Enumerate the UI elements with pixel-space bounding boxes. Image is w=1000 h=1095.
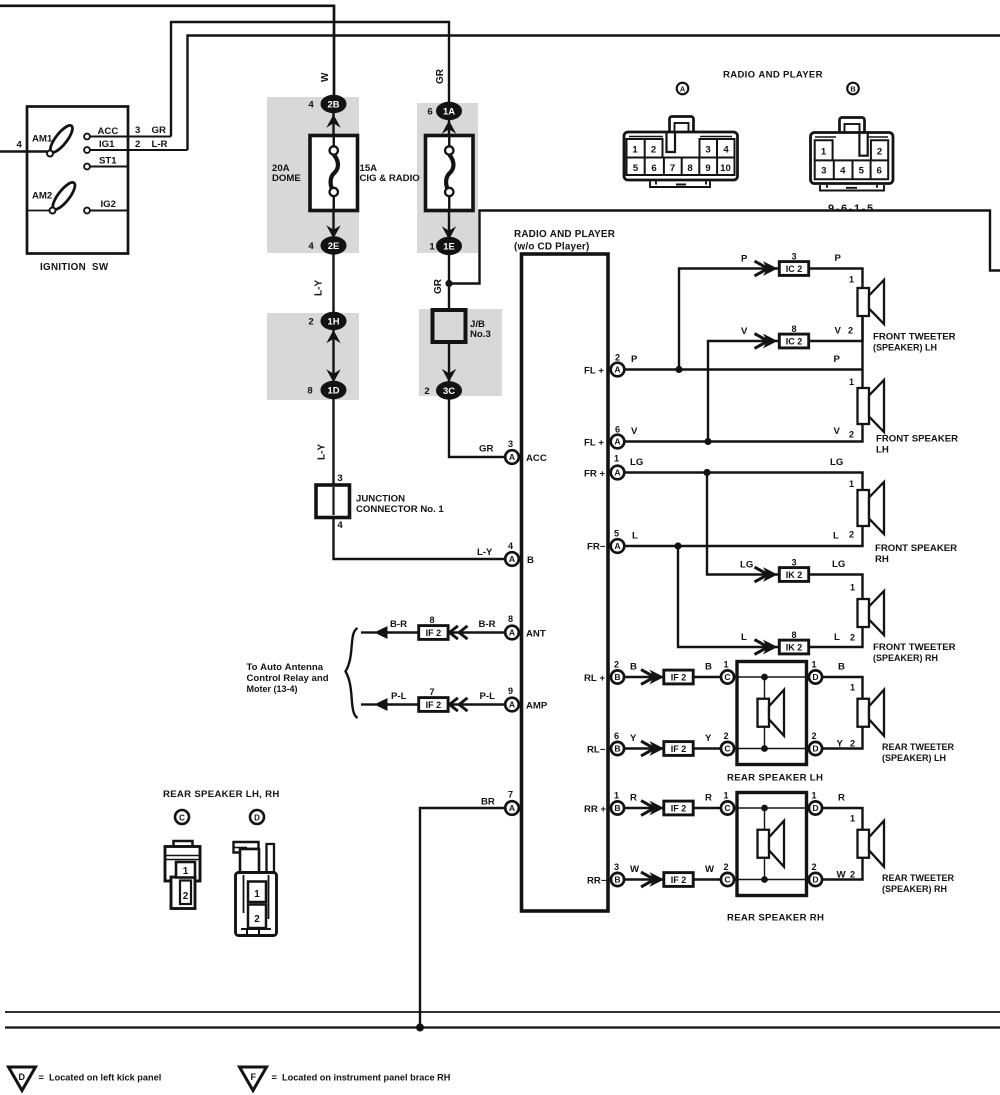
svg-text:9: 9	[508, 686, 513, 696]
svg-text:2: 2	[811, 731, 816, 741]
terminal A4 B	[505, 552, 519, 566]
terminal B3 REAR&#160;SPEAKER&#160;RH - wire	[624, 878, 666, 880]
svg-text:6: 6	[427, 107, 432, 118]
connector B circled letter	[847, 83, 859, 95]
curly brace	[346, 628, 358, 718]
svg-text:8: 8	[687, 163, 693, 174]
ground bus line lower	[5, 1026, 1000, 1028]
svg-text:B-R: B-R	[479, 619, 496, 630]
svg-text:2: 2	[651, 145, 656, 156]
svg-text:RL−: RL−	[587, 745, 606, 756]
svg-text:AM1: AM1	[32, 134, 53, 145]
svg-text:IF 2: IF 2	[671, 803, 687, 813]
svg-text:LH: LH	[876, 445, 889, 456]
svg-text:FRONT SPEAKER: FRONT SPEAKER	[876, 434, 958, 445]
connector C1 REAR&#160;SPEAKER&#160;LH	[721, 670, 734, 683]
svg-text:2: 2	[850, 870, 855, 880]
wire LG branch to IK2	[707, 473, 780, 575]
svg-text:3: 3	[821, 166, 826, 177]
connector B pinout drawing	[811, 118, 894, 191]
wires inside REAR&#160;SPEAKER&#160;LH	[734, 677, 809, 749]
svg-text:2: 2	[850, 739, 855, 749]
svg-text:CIG & RADIO: CIG & RADIO	[360, 173, 421, 184]
svg-text:IF 2: IF 2	[671, 875, 687, 885]
chevron P	[755, 261, 769, 276]
svg-text:Y: Y	[705, 733, 712, 744]
svg-text:IF 2: IF 2	[426, 628, 442, 638]
fuse 15A CIG & RADIO	[426, 136, 474, 211]
svg-text:2: 2	[723, 862, 728, 872]
fuse 20A DOME	[310, 136, 358, 211]
chevron W	[641, 872, 655, 887]
J/B No.3 box	[433, 310, 466, 342]
svg-text:A: A	[614, 541, 620, 551]
svg-text:4: 4	[308, 100, 314, 111]
svg-text:IC 2: IC 2	[786, 336, 803, 346]
svg-text:ACC: ACC	[526, 453, 547, 464]
svg-text:L: L	[741, 632, 747, 643]
svg-text:DOME: DOME	[272, 173, 301, 184]
wire tweeter LH bottom to IC2 pin8	[809, 316, 863, 341]
terminal B1 REAR&#160;SPEAKER&#160;RH + wire	[624, 807, 666, 809]
svg-text:V: V	[741, 326, 748, 337]
chevrons ANT	[450, 626, 458, 639]
svg-text:8: 8	[307, 386, 313, 397]
svg-text:V: V	[835, 326, 842, 337]
svg-text:6: 6	[877, 166, 882, 177]
svg-text:RL +: RL +	[584, 673, 605, 684]
svg-text:L-Y: L-Y	[314, 280, 325, 296]
svg-text:IC 2: IC 2	[786, 264, 803, 274]
shaded block around DOME fuse	[267, 97, 359, 253]
svg-text:CONNECTOR No. 1: CONNECTOR No. 1	[356, 504, 444, 515]
svg-text:B: B	[630, 662, 637, 673]
svg-text:Y: Y	[630, 733, 637, 744]
svg-text:P: P	[741, 254, 748, 265]
svg-text:(SPEAKER) RH: (SPEAKER) RH	[873, 653, 938, 663]
svg-text:A: A	[614, 437, 620, 447]
arrow to antenna AMP	[374, 698, 388, 711]
svg-text:B: B	[614, 875, 620, 885]
svg-text:6: 6	[614, 731, 619, 741]
svg-text:2: 2	[308, 317, 313, 328]
chevron LG	[755, 567, 769, 582]
svg-text:L-Y: L-Y	[317, 444, 328, 460]
svg-text:RR +: RR +	[584, 804, 607, 815]
svg-text:L: L	[834, 632, 840, 643]
svg-text:BR: BR	[481, 797, 495, 808]
svg-text:4: 4	[308, 241, 314, 252]
terminal A9 AMP	[505, 698, 519, 712]
chevron V	[755, 334, 769, 349]
svg-text:1: 1	[811, 660, 816, 670]
svg-text:(SPEAKER) RH: (SPEAKER) RH	[882, 884, 947, 894]
svg-text:3: 3	[135, 125, 140, 136]
svg-text:D: D	[812, 875, 818, 885]
svg-text:IG1: IG1	[99, 139, 115, 150]
svg-text:4: 4	[840, 166, 846, 177]
terminal B6 REAR&#160;SPEAKER&#160;LH - wire	[624, 747, 666, 749]
svg-text:REAR TWEETER: REAR TWEETER	[882, 742, 955, 752]
terminal A5 FR- L	[624, 526, 863, 546]
svg-text:A: A	[509, 803, 515, 813]
svg-text:3: 3	[337, 473, 342, 484]
svg-text:D: D	[812, 744, 818, 754]
svg-text:B: B	[527, 555, 534, 566]
svg-text:R: R	[705, 793, 712, 804]
svg-text:B: B	[850, 85, 855, 94]
svg-text:L: L	[632, 531, 638, 542]
svg-text:D: D	[812, 672, 818, 682]
connector C circled letter	[175, 810, 189, 824]
wire AMP P-L	[386, 703, 505, 705]
svg-text:B: B	[614, 744, 620, 754]
connector D1 REAR&#160;SPEAKER&#160;RH	[809, 801, 822, 814]
svg-text:To Auto Antenna: To Auto Antenna	[247, 662, 324, 673]
svg-text:2: 2	[849, 530, 854, 540]
connector IF 2 REAR&#160;SPEAKER&#160;RH bottom	[664, 873, 693, 887]
REAR&#160;SPEAKER&#160;RH box	[737, 793, 807, 896]
svg-text:3: 3	[791, 558, 796, 568]
svg-text:1: 1	[632, 145, 638, 156]
svg-text:LG: LG	[630, 457, 643, 468]
svg-text:P-L: P-L	[480, 691, 496, 702]
svg-text:F: F	[250, 1072, 256, 1082]
svg-text:R: R	[630, 793, 637, 804]
connector IC 2 pin8	[779, 334, 808, 348]
svg-text:W: W	[630, 864, 640, 875]
svg-text:A: A	[614, 365, 620, 375]
svg-text:1: 1	[429, 242, 435, 253]
svg-text:A: A	[509, 628, 515, 638]
svg-text:3: 3	[508, 439, 513, 449]
wire AM1 input	[0, 150, 50, 152]
connector C2 REAR&#160;SPEAKER&#160;LH	[721, 742, 734, 755]
ignition terminal ACC wire	[90, 136, 171, 138]
svg-text:2: 2	[848, 326, 853, 336]
connector IK 2 pin8	[779, 640, 808, 654]
svg-text:FR−: FR−	[587, 542, 606, 553]
svg-text:B: B	[614, 803, 620, 813]
svg-text:GR: GR	[152, 125, 166, 136]
ignition terminal ST1	[90, 166, 128, 168]
connector 2B	[326, 115, 340, 128]
svg-text:B: B	[614, 672, 620, 682]
wire P branch to IC2	[679, 269, 780, 370]
svg-text:IGNITION SW: IGNITION SW	[40, 262, 109, 273]
svg-text:REAR TWEETER: REAR TWEETER	[882, 873, 955, 883]
svg-text:1: 1	[850, 682, 855, 692]
wire D2 to rear tweeter	[822, 858, 863, 880]
svg-text:1: 1	[850, 813, 855, 823]
svg-text:= Located on left kick panel: = Located on left kick panel	[39, 1073, 162, 1083]
svg-text:2: 2	[183, 891, 189, 902]
svg-text:C: C	[179, 813, 185, 822]
svg-text:RADIO AND PLAYER: RADIO AND PLAYER	[723, 70, 823, 81]
svg-text:LG: LG	[832, 559, 845, 570]
svg-text:2: 2	[615, 353, 620, 363]
svg-text:P: P	[834, 354, 841, 365]
svg-text:3: 3	[705, 145, 710, 156]
svg-text:(SPEAKER) LH: (SPEAKER) LH	[873, 343, 937, 353]
svg-text:1: 1	[850, 583, 855, 593]
connector 3C	[442, 369, 456, 382]
svg-text:ST1: ST1	[99, 155, 117, 166]
svg-text:RR−: RR−	[587, 876, 607, 887]
svg-text:IK 2: IK 2	[786, 570, 803, 580]
svg-text:IF 2: IF 2	[671, 672, 687, 682]
svg-text:FRONT TWEETER: FRONT TWEETER	[873, 642, 956, 653]
AM2 switch lever	[28, 210, 53, 212]
terminal A8 ANT	[505, 626, 519, 640]
svg-text:ANT: ANT	[526, 629, 546, 640]
svg-text:REAR SPEAKER LH: REAR SPEAKER LH	[727, 773, 823, 784]
svg-text:LG: LG	[830, 457, 843, 468]
wire D2 to rear tweeter	[822, 727, 863, 749]
svg-text:7: 7	[429, 687, 434, 697]
svg-text:2: 2	[877, 147, 882, 158]
svg-text:1: 1	[614, 454, 619, 464]
svg-text:2E: 2E	[328, 240, 339, 251]
wire D1 to rear tweeter	[822, 808, 863, 830]
svg-text:A: A	[509, 554, 515, 564]
svg-text:A: A	[509, 452, 515, 462]
svg-text:A: A	[680, 85, 686, 94]
svg-text:B: B	[838, 662, 845, 673]
ground bus line upper	[5, 1011, 1000, 1013]
svg-text:LG: LG	[740, 560, 753, 571]
svg-text:C: C	[724, 672, 730, 682]
terminal B2 REAR&#160;SPEAKER&#160;LH + wire	[624, 676, 666, 678]
svg-text:3C: 3C	[443, 385, 455, 396]
svg-text:8: 8	[429, 615, 434, 625]
REAR&#160;SPEAKER&#160;LH box	[737, 662, 807, 765]
svg-text:1A: 1A	[443, 105, 455, 116]
svg-text:(SPEAKER) LH: (SPEAKER) LH	[882, 753, 946, 763]
wire ACC feed top	[171, 22, 449, 137]
svg-text:= Located on instrument panel: = Located on instrument panel brace RH	[272, 1073, 451, 1083]
svg-text:P: P	[631, 354, 638, 365]
svg-text:IF 2: IF 2	[426, 700, 442, 710]
svg-text:V: V	[834, 426, 841, 437]
REAR&#160;SPEAKER&#160;RH speaker symbol	[758, 830, 770, 858]
connector 1E	[442, 226, 456, 239]
chevron B	[641, 670, 655, 685]
wire L branch to IK2	[678, 546, 780, 647]
svg-text:L-Y: L-Y	[477, 547, 493, 558]
chevron R	[641, 801, 655, 816]
svg-text:D: D	[254, 813, 260, 822]
svg-text:AM2: AM2	[32, 191, 52, 202]
svg-text:Control Relay and: Control Relay and	[247, 673, 329, 684]
connector IF 2 REAR&#160;SPEAKER&#160;RH top	[664, 801, 693, 815]
shaded block around connectors 1H-1D	[267, 313, 359, 400]
svg-text:Y: Y	[837, 739, 844, 750]
svg-text:IF 2: IF 2	[671, 744, 687, 754]
svg-text:No.3: No.3	[470, 329, 491, 340]
AM1 switch lever	[47, 122, 76, 155]
svg-text:5: 5	[859, 166, 865, 177]
svg-text:GR: GR	[479, 444, 493, 455]
svg-text:C: C	[724, 744, 730, 754]
connector IF 2 REAR&#160;SPEAKER&#160;LH bottom	[664, 742, 693, 756]
connector C1 REAR&#160;SPEAKER&#160;RH	[721, 801, 734, 814]
rear tweeter speaker REAR&#160;SPEAKER&#160;LH	[858, 699, 870, 727]
svg-text:JUNCTION: JUNCTION	[356, 494, 405, 505]
svg-text:8: 8	[508, 614, 513, 624]
svg-text:4: 4	[337, 520, 343, 531]
svg-text:5: 5	[633, 163, 639, 174]
svg-text:R: R	[838, 793, 845, 804]
svg-text:1: 1	[723, 660, 728, 670]
svg-text:Moter (13-4): Moter (13-4)	[247, 684, 298, 694]
chevrons AMP	[450, 698, 458, 711]
wire battery feed W top	[0, 6, 334, 97]
connector A pinout drawing	[624, 117, 738, 188]
ignition terminal IG2	[90, 210, 128, 212]
svg-text:ACC: ACC	[98, 126, 119, 137]
svg-text:AMP: AMP	[526, 701, 548, 712]
ignition terminal IG1 wire	[90, 149, 188, 151]
svg-text:2: 2	[614, 660, 619, 670]
svg-text:2B: 2B	[328, 98, 340, 109]
svg-text:P-L: P-L	[391, 691, 407, 702]
terminal A3 ACC	[505, 450, 519, 464]
connector 1H	[326, 330, 340, 343]
svg-text:REAR SPEAKER LH, RH: REAR SPEAKER LH, RH	[163, 789, 280, 800]
connector IK 2 pin3	[779, 568, 808, 582]
connector D2 REAR&#160;SPEAKER&#160;RH	[809, 873, 822, 886]
svg-text:7: 7	[670, 163, 675, 174]
connector D1 REAR&#160;SPEAKER&#160;LH	[809, 670, 822, 683]
shaded block around CIG fuse	[417, 103, 478, 253]
svg-text:8: 8	[791, 324, 796, 334]
REAR&#160;SPEAKER&#160;LH speaker symbol	[758, 699, 770, 727]
svg-text:W: W	[837, 870, 847, 881]
svg-text:2: 2	[850, 633, 855, 643]
svg-text:B-R: B-R	[390, 619, 407, 630]
svg-text:1: 1	[849, 275, 854, 285]
svg-text:C: C	[724, 875, 730, 885]
svg-text:1: 1	[614, 791, 619, 801]
svg-text:1: 1	[254, 889, 260, 900]
svg-text:2: 2	[849, 430, 854, 440]
ignition switch box	[27, 107, 128, 254]
svg-text:5: 5	[614, 529, 619, 539]
connector C2 REAR&#160;SPEAKER&#160;RH	[721, 873, 734, 886]
connector IF 2 on AMP wire	[419, 698, 448, 712]
wire GR branch to right edge	[449, 211, 1000, 284]
svg-text:1E: 1E	[443, 240, 454, 251]
svg-text:(w/o CD Player): (w/o CD Player)	[514, 242, 589, 253]
svg-text:L-R: L-R	[152, 139, 168, 150]
svg-text:3: 3	[614, 862, 619, 872]
wire ANT B-R	[386, 631, 505, 633]
svg-text:B: B	[705, 662, 712, 673]
connector IF 2 REAR&#160;SPEAKER&#160;LH top	[664, 670, 693, 684]
svg-text:FRONT SPEAKER: FRONT SPEAKER	[875, 543, 957, 554]
svg-text:D: D	[812, 803, 818, 813]
connector 1A	[442, 121, 456, 134]
chevron Y	[641, 741, 655, 756]
node GR junction	[445, 280, 452, 287]
wires inside REAR&#160;SPEAKER&#160;RH	[734, 808, 809, 880]
svg-text:2: 2	[811, 862, 816, 872]
svg-text:FR +: FR +	[584, 469, 605, 480]
svg-text:W: W	[705, 864, 715, 875]
svg-text:2: 2	[254, 914, 260, 925]
wire D1 to rear tweeter	[822, 677, 863, 699]
svg-text:4: 4	[17, 140, 23, 151]
svg-text:V: V	[631, 426, 638, 437]
wire IG1 feed top	[188, 36, 1000, 151]
svg-text:2: 2	[135, 139, 140, 150]
svg-text:RH: RH	[875, 554, 889, 565]
svg-text:IG2: IG2	[101, 199, 116, 210]
connector D circled letter	[250, 810, 264, 824]
svg-text:1H: 1H	[328, 315, 340, 326]
svg-text:6: 6	[651, 163, 656, 174]
svg-text:2: 2	[723, 731, 728, 741]
chevron L	[755, 640, 769, 655]
wire BR to ground bus	[420, 808, 505, 1028]
connector IC 2 pin3	[779, 262, 808, 276]
svg-text:C: C	[724, 803, 730, 813]
terminal A7 BR	[505, 801, 519, 815]
wire DOME fuse column	[334, 97, 506, 559]
svg-text:A: A	[509, 700, 515, 710]
connector 2E	[326, 225, 340, 238]
arrow to antenna ANT	[374, 626, 388, 639]
svg-text:IK 2: IK 2	[786, 642, 803, 652]
connector 1D	[326, 369, 340, 382]
svg-text:W: W	[320, 72, 331, 82]
svg-text:6: 6	[615, 425, 620, 435]
wire CIG fuse column	[449, 119, 505, 457]
svg-text:4: 4	[723, 145, 729, 156]
connector D2 REAR&#160;SPEAKER&#160;LH	[809, 742, 822, 755]
svg-text:D: D	[19, 1072, 26, 1082]
svg-text:FL +: FL +	[584, 438, 604, 449]
svg-text:A: A	[614, 468, 620, 478]
svg-text:1: 1	[723, 791, 728, 801]
svg-text:FRONT TWEETER: FRONT TWEETER	[873, 332, 956, 343]
terminal A6 FL+ V	[624, 424, 863, 442]
rear tweeter speaker REAR&#160;SPEAKER&#160;RH	[858, 830, 870, 858]
svg-text:1: 1	[811, 791, 816, 801]
terminal A1 FR+ LG	[624, 473, 863, 491]
connector C drawing	[165, 841, 200, 909]
terminal A2 FL+ P	[624, 288, 863, 370]
svg-text:7: 7	[508, 790, 513, 800]
legend triangle D	[9, 1067, 36, 1091]
junction connector No.1 box	[316, 485, 350, 518]
svg-text:1D: 1D	[328, 384, 340, 395]
connector IF 2 on ANT wire	[419, 626, 448, 640]
svg-text:GR: GR	[433, 278, 444, 294]
svg-text:1: 1	[849, 377, 854, 387]
svg-text:9: 9	[705, 163, 710, 174]
svg-text:L: L	[833, 531, 839, 542]
svg-text:8: 8	[791, 630, 796, 640]
svg-text:P: P	[835, 253, 842, 264]
svg-text:10: 10	[720, 163, 731, 174]
svg-text:1: 1	[849, 479, 854, 489]
shaded block around J/B No.3	[419, 309, 502, 396]
radio and player unit box	[522, 254, 609, 911]
connector A circled letter	[677, 83, 689, 95]
svg-text:RADIO AND PLAYER: RADIO AND PLAYER	[514, 229, 615, 240]
